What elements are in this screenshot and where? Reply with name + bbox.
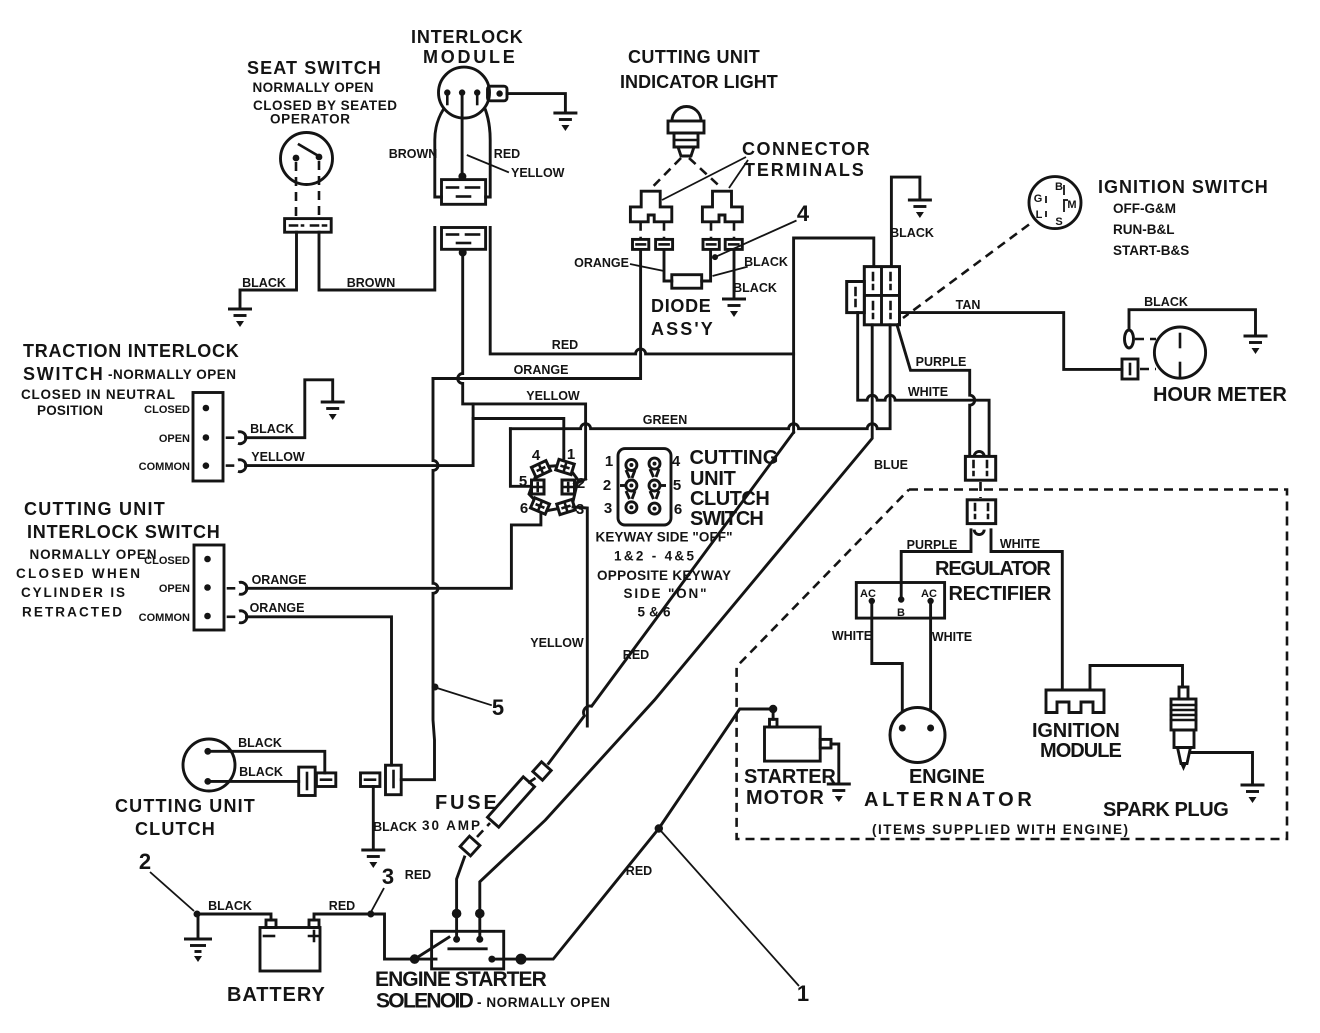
cu interlock OPEN hook [228, 587, 234, 590]
label YELLOW + leader [467, 155, 509, 172]
svg-text:BLACK: BLACK [208, 899, 252, 913]
wire BLACK key block to ground [891, 177, 920, 267]
svg-text:START-B&S: START-B&S [1113, 243, 1189, 258]
svg-text:6: 6 [520, 500, 528, 517]
label 1 + leader [661, 831, 799, 986]
svg-text:UNIT: UNIT [690, 468, 736, 490]
connector pair lower half [967, 500, 996, 524]
svg-text:RED: RED [329, 899, 355, 913]
svg-text:BLUE: BLUE [874, 458, 908, 472]
hex connector body [529, 465, 578, 511]
svg-text:B: B [1055, 181, 1063, 193]
svg-text:OFF-G&M: OFF-G&M [1113, 201, 1176, 216]
svg-text:RECTIFIER: RECTIFIER [949, 583, 1052, 605]
HOUR METER SECTION [900, 295, 1288, 406]
INTERLOCK MODULE SECTION [389, 27, 578, 257]
hour meter body [1154, 327, 1205, 378]
INDICATOR LIGHT / DIODE SECTION [574, 47, 870, 339]
svg-text:3: 3 [604, 500, 612, 517]
svg-text:YELLOW: YELLOW [530, 636, 584, 650]
svg-text:6: 6 [674, 501, 682, 518]
svg-text:ORANGE: ORANGE [250, 601, 305, 615]
svg-text:GREEN: GREEN [643, 413, 687, 427]
svg-text:M: M [1067, 199, 1076, 211]
svg-text:SIDE "ON": SIDE "ON" [624, 586, 707, 601]
traction interlock switch body [193, 393, 223, 482]
svg-text:G: G [1034, 193, 1043, 205]
hour meter terminal oval [1125, 330, 1134, 348]
clutch switch terminals [620, 458, 666, 514]
svg-text:PURPLE: PURPLE [916, 355, 967, 369]
svg-text:WHITE: WHITE [832, 629, 872, 643]
wire BLACK traction to ground [246, 380, 333, 438]
hour meter terminal square [1122, 359, 1138, 379]
spark plug body [1179, 687, 1188, 699]
wire diode to T3 [702, 249, 711, 281]
wire pin2 stub to yellow vertical [575, 479, 586, 484]
svg-text:REGULATOR: REGULATOR [935, 558, 1051, 580]
svg-text:1: 1 [567, 446, 575, 463]
svg-text:SPARK PLUG: SPARK PLUG [1103, 799, 1229, 821]
svg-text:WHITE: WHITE [1000, 537, 1040, 551]
TRACTION + CUTTING UNIT INTERLOCK SWITCHES [16, 341, 564, 765]
hex pin 3 [557, 499, 576, 514]
svg-text:CUTTING: CUTTING [690, 447, 779, 469]
key switch connector block 2x2 [864, 267, 899, 325]
cutting unit interlock switch body [194, 545, 224, 630]
indicator lamp bulb [672, 107, 701, 122]
svg-text:RUN-B&L: RUN-B&L [1113, 222, 1175, 237]
svg-text:RED: RED [552, 338, 578, 352]
hex pin 6 [530, 498, 549, 514]
connector terminal plug left [630, 191, 671, 222]
wire WHITE key small block to connector pair (hops blue, green riser) [858, 313, 989, 457]
node below lower connector [459, 249, 467, 257]
key switch small connector block [847, 282, 865, 313]
wire WHITE regulator AC left to alternator [872, 601, 903, 728]
svg-text:INTERLOCK SWITCH: INTERLOCK SWITCH [27, 522, 220, 542]
svg-text:YELLOW: YELLOW [251, 450, 305, 464]
traction COMMON terminal hook [227, 464, 233, 467]
svg-text:3: 3 [382, 864, 394, 889]
ground seat switch [228, 309, 252, 327]
svg-text:ALTERNATOR: ALTERNATOR [864, 789, 1032, 811]
svg-text:CUTTING UNIT: CUTTING UNIT [628, 47, 760, 67]
svg-text:ENGINE STARTER: ENGINE STARTER [375, 968, 547, 991]
wire BLUE key block to solenoid [480, 325, 872, 932]
ground hour meter [1244, 336, 1268, 354]
battery body [260, 928, 320, 972]
svg-text:MOTOR: MOTOR [746, 787, 824, 809]
wire WHITE lower connector to ignition module [991, 530, 1062, 690]
svg-text:CLOSED: CLOSED [144, 555, 190, 567]
wire RED fuse diagonal to key riser (hops yellow vert) [549, 432, 794, 763]
wire RED module to key block riser [490, 228, 793, 354]
svg-text:TAN: TAN [956, 298, 981, 312]
wire PURPLE key block to connector pair (hops white) [897, 325, 975, 457]
cu interlock COMMON hook [228, 615, 234, 618]
svg-text:RED: RED [626, 864, 652, 878]
svg-text:MODULE: MODULE [1040, 740, 1122, 762]
wire BLACK seat switch to ground [240, 232, 297, 308]
svg-text:2: 2 [603, 477, 611, 494]
svg-text:CLOSED WHEN: CLOSED WHEN [16, 566, 140, 581]
svg-text:CLOSED IN NEUTRAL: CLOSED IN NEUTRAL [21, 387, 175, 402]
svg-text:2: 2 [139, 849, 151, 874]
CLUTCH SWITCH + HEX CONNECTOR [510, 429, 778, 726]
svg-text:CLUTCH: CLUTCH [135, 819, 215, 839]
engine alternator body [890, 708, 945, 763]
wire module tab to ground [507, 94, 565, 112]
SEAT SWITCH SECTION [228, 58, 435, 327]
svg-text:1: 1 [797, 981, 809, 1006]
fuse dashed link 1 [477, 823, 490, 837]
cutting unit clutch body [183, 739, 235, 791]
svg-text:4: 4 [672, 453, 681, 470]
svg-text:AC: AC [860, 588, 876, 600]
regulator rectifier box [856, 583, 944, 619]
svg-text:CUTTING UNIT: CUTTING UNIT [24, 499, 165, 519]
svg-text:BLACK: BLACK [373, 820, 417, 834]
fuse dashed link 2 [528, 777, 537, 783]
wire solenoid right to blue riser [475, 909, 485, 919]
svg-text:4: 4 [797, 201, 810, 226]
node dot starter cable [655, 824, 663, 832]
svg-text:SWITCH: SWITCH [23, 364, 103, 384]
module body trapezoid sides [435, 110, 443, 197]
svg-text:BLACK: BLACK [238, 736, 282, 750]
module right tab [488, 86, 508, 101]
wire solenoid to fuse riser [457, 857, 465, 931]
clutch connector pair A [299, 767, 316, 795]
wire RED battery positive to solenoid [314, 914, 436, 959]
fuse body [487, 777, 534, 827]
wire starter motor to ground [831, 744, 839, 783]
hex pin 1 [556, 459, 575, 474]
ignition module body [1046, 690, 1104, 713]
svg-text:1: 1 [605, 453, 613, 470]
svg-text:COMMON: COMMON [139, 612, 190, 624]
svg-text:CLUTCH: CLUTCH [690, 488, 770, 510]
svg-text:CUTTING UNIT: CUTTING UNIT [115, 796, 255, 816]
wire BLACK clutch lower to connector [208, 780, 299, 783]
svg-text:SOLENOID: SOLENOID [376, 990, 474, 1013]
fuse chain diamond 2 [533, 762, 551, 780]
svg-text:5: 5 [673, 477, 681, 494]
fuse chain diamond 1 [460, 836, 480, 856]
interlock module body circle [439, 67, 490, 118]
MAIN WIRES [401, 228, 1062, 932]
wire ORANGE cu OPEN to hex pin6 [247, 513, 541, 588]
svg-text:INTERLOCK: INTERLOCK [411, 27, 523, 47]
svg-text:BLACK: BLACK [890, 226, 934, 240]
svg-text:RETRACTED: RETRACTED [22, 605, 122, 620]
wire spark plug to ground [1191, 753, 1253, 785]
svg-text:BLACK: BLACK [239, 765, 283, 779]
ground battery [184, 939, 212, 962]
svg-text:BLACK: BLACK [733, 281, 777, 295]
wire RED riser to key block [794, 238, 874, 432]
dashed leads to connector [295, 162, 298, 218]
hex pin 2 [562, 480, 575, 494]
hex pin 5 [532, 480, 545, 494]
module center pin wire [461, 93, 464, 177]
lamp dashed leads [652, 158, 682, 188]
svg-text:STARTER: STARTER [744, 766, 836, 788]
wire BLACK battery negative to ground [198, 914, 271, 938]
svg-text:POSITION: POSITION [37, 403, 103, 418]
diode assembly body [672, 275, 702, 289]
svg-text:1&2 - 4&5: 1&2 - 4&5 [614, 549, 694, 564]
wire starter cable solenoid to starter motor [504, 709, 770, 959]
svg-text:CLOSED: CLOSED [144, 404, 190, 416]
svg-text:NORMALLY OPEN: NORMALLY OPEN [253, 80, 374, 95]
terminal T4 [725, 239, 742, 249]
svg-text:OPEN: OPEN [159, 433, 190, 445]
svg-text:5: 5 [492, 695, 504, 720]
engine starter solenoid body [432, 931, 504, 969]
dashed engine boundary box [737, 490, 1287, 840]
svg-text:(ITEMS SUPPLIED WITH ENGINE): (ITEMS SUPPLIED WITH ENGINE) [872, 822, 1128, 837]
wire BLACK clutch upper to connector [208, 751, 325, 773]
svg-text:SWITCH: SWITCH [690, 508, 764, 530]
ground starter motor [827, 784, 851, 802]
svg-text:- NORMALLY OPEN: - NORMALLY OPEN [477, 995, 610, 1010]
IGNITION SWITCH / KEY BLOCK SECTION [794, 177, 1268, 433]
svg-text:ENGINE: ENGINE [909, 766, 985, 788]
svg-text:B: B [897, 607, 905, 619]
svg-text:BLACK: BLACK [744, 255, 788, 269]
svg-text:DIODE: DIODE [651, 296, 711, 316]
terminal T3 [703, 239, 719, 249]
seat switch arm [299, 145, 319, 157]
ground module [553, 113, 577, 131]
module pins [444, 89, 450, 95]
svg-text:AC: AC [921, 588, 937, 600]
starter motor body [765, 727, 821, 761]
svg-text:WHITE: WHITE [908, 385, 948, 399]
terminal T1 [633, 239, 649, 249]
svg-text:PURPLE: PURPLE [907, 538, 958, 552]
svg-text:4: 4 [532, 447, 541, 464]
dashed links to meter [1135, 338, 1156, 341]
stub yellow to traction-yellow link [472, 404, 475, 419]
svg-text:BLACK: BLACK [250, 422, 294, 436]
wire YELLOW module to hex pin2 (hops ORANGE) [458, 253, 586, 480]
ground spark plug [1241, 785, 1265, 803]
svg-text:WHITE: WHITE [932, 630, 972, 644]
svg-text:BROWN: BROWN [347, 276, 396, 290]
svg-text:ORANGE: ORANGE [252, 573, 307, 587]
svg-text:L: L [1036, 209, 1043, 221]
module connector lower [442, 228, 486, 250]
svg-text:3: 3 [576, 501, 584, 518]
clutch switch body [618, 449, 671, 525]
wire ignition module to spark plug [1090, 666, 1183, 691]
svg-text:CYLINDER IS: CYLINDER IS [21, 585, 125, 600]
wire ORANGE diode T1 down (hops RED) and left [433, 249, 641, 378]
svg-text:ORANGE: ORANGE [574, 256, 629, 270]
svg-text:SEAT SWITCH: SEAT SWITCH [247, 58, 381, 78]
svg-text:BLACK: BLACK [242, 276, 286, 290]
svg-text:S: S [1055, 216, 1062, 228]
svg-text:RED: RED [494, 147, 520, 161]
seat switch S1 body [281, 133, 333, 185]
wire pin3 stub to lower yellow vertical [573, 507, 587, 726]
wire ORANGE vertical from diode to clutch connector (hops yellow + orange) [401, 379, 438, 780]
wire T2 to diode [664, 249, 672, 281]
node 5 dot + leader + label [432, 684, 439, 691]
wire WHITE regulator AC right to alternator [929, 601, 932, 728]
ground diode [722, 299, 746, 317]
svg-text:CONNECTOR: CONNECTOR [742, 139, 870, 159]
svg-text:BATTERY: BATTERY [227, 984, 325, 1006]
svg-text:RED: RED [623, 648, 649, 662]
wire TAN key block to hour meter [900, 313, 1123, 370]
module connector upper [442, 180, 486, 205]
svg-text:YELLOW: YELLOW [526, 389, 580, 403]
svg-text:RED: RED [405, 868, 431, 882]
wire T4 to ground [733, 249, 736, 298]
svg-text:BLACK: BLACK [1144, 295, 1188, 309]
svg-text:TERMINALS: TERMINALS [744, 160, 864, 180]
wire PURPLE lower connector to regulator B [901, 530, 971, 597]
svg-text:NORMALLY OPEN: NORMALLY OPEN [30, 547, 157, 562]
svg-text:HOUR METER: HOUR METER [1153, 384, 1287, 406]
svg-text:TRACTION INTERLOCK: TRACTION INTERLOCK [23, 341, 239, 361]
svg-text:OPERATOR: OPERATOR [270, 112, 350, 127]
connector pair upper half [974, 451, 984, 456]
seat switch connector [285, 219, 332, 233]
traction OPEN terminal hook [227, 436, 233, 439]
ground traction [321, 402, 345, 420]
clutch connector pair B (harness side) [361, 773, 380, 787]
terminal T2 [656, 239, 673, 249]
svg-text:BROWN: BROWN [389, 147, 438, 161]
svg-text:COMMON: COMMON [139, 461, 190, 473]
svg-text:IGNITION SWITCH: IGNITION SWITCH [1098, 177, 1268, 197]
wire YELLOW traction COMMON to clutch connector [246, 419, 564, 466]
wire pin5 riser to GREEN [510, 429, 529, 487]
svg-text:30 AMP: 30 AMP [422, 818, 480, 833]
dashed leader ignition switch to connector [903, 225, 1029, 319]
svg-text:OPEN: OPEN [159, 583, 190, 595]
dashed stubs to terminals [639, 222, 642, 240]
svg-text:OPPOSITE KEYWAY: OPPOSITE KEYWAY [597, 568, 731, 583]
ground key block [908, 200, 932, 218]
ground clutch connector [361, 850, 385, 868]
wire GREEN pin1/pin5 to key block (hops yellow, red, blue) [510, 325, 890, 429]
wire BLACK connector B to ground [372, 787, 375, 850]
ignition switch face [1029, 177, 1081, 229]
wire BLACK hour meter to ground [1129, 310, 1256, 335]
wire ORANGE cu COMMON down to clutch connector [247, 617, 392, 765]
svg-text:IGNITION: IGNITION [1032, 720, 1120, 742]
svg-text:YELLOW: YELLOW [511, 166, 565, 180]
svg-text:-NORMALLY OPEN: -NORMALLY OPEN [108, 367, 236, 382]
svg-text:ASS'Y: ASS'Y [651, 319, 713, 339]
svg-text:ORANGE: ORANGE [514, 363, 569, 377]
connector terminal plug right [702, 191, 742, 222]
seat switch contacts [293, 155, 300, 162]
svg-text:INDICATOR LIGHT: INDICATOR LIGHT [620, 72, 778, 92]
REGULATOR / ENGINE BOX [737, 490, 1287, 840]
wire BROWN seat switch to module connector [319, 228, 435, 291]
BATTERY / SOLENOID / FUSE [115, 432, 809, 1012]
hex pin 4 [531, 461, 550, 478]
